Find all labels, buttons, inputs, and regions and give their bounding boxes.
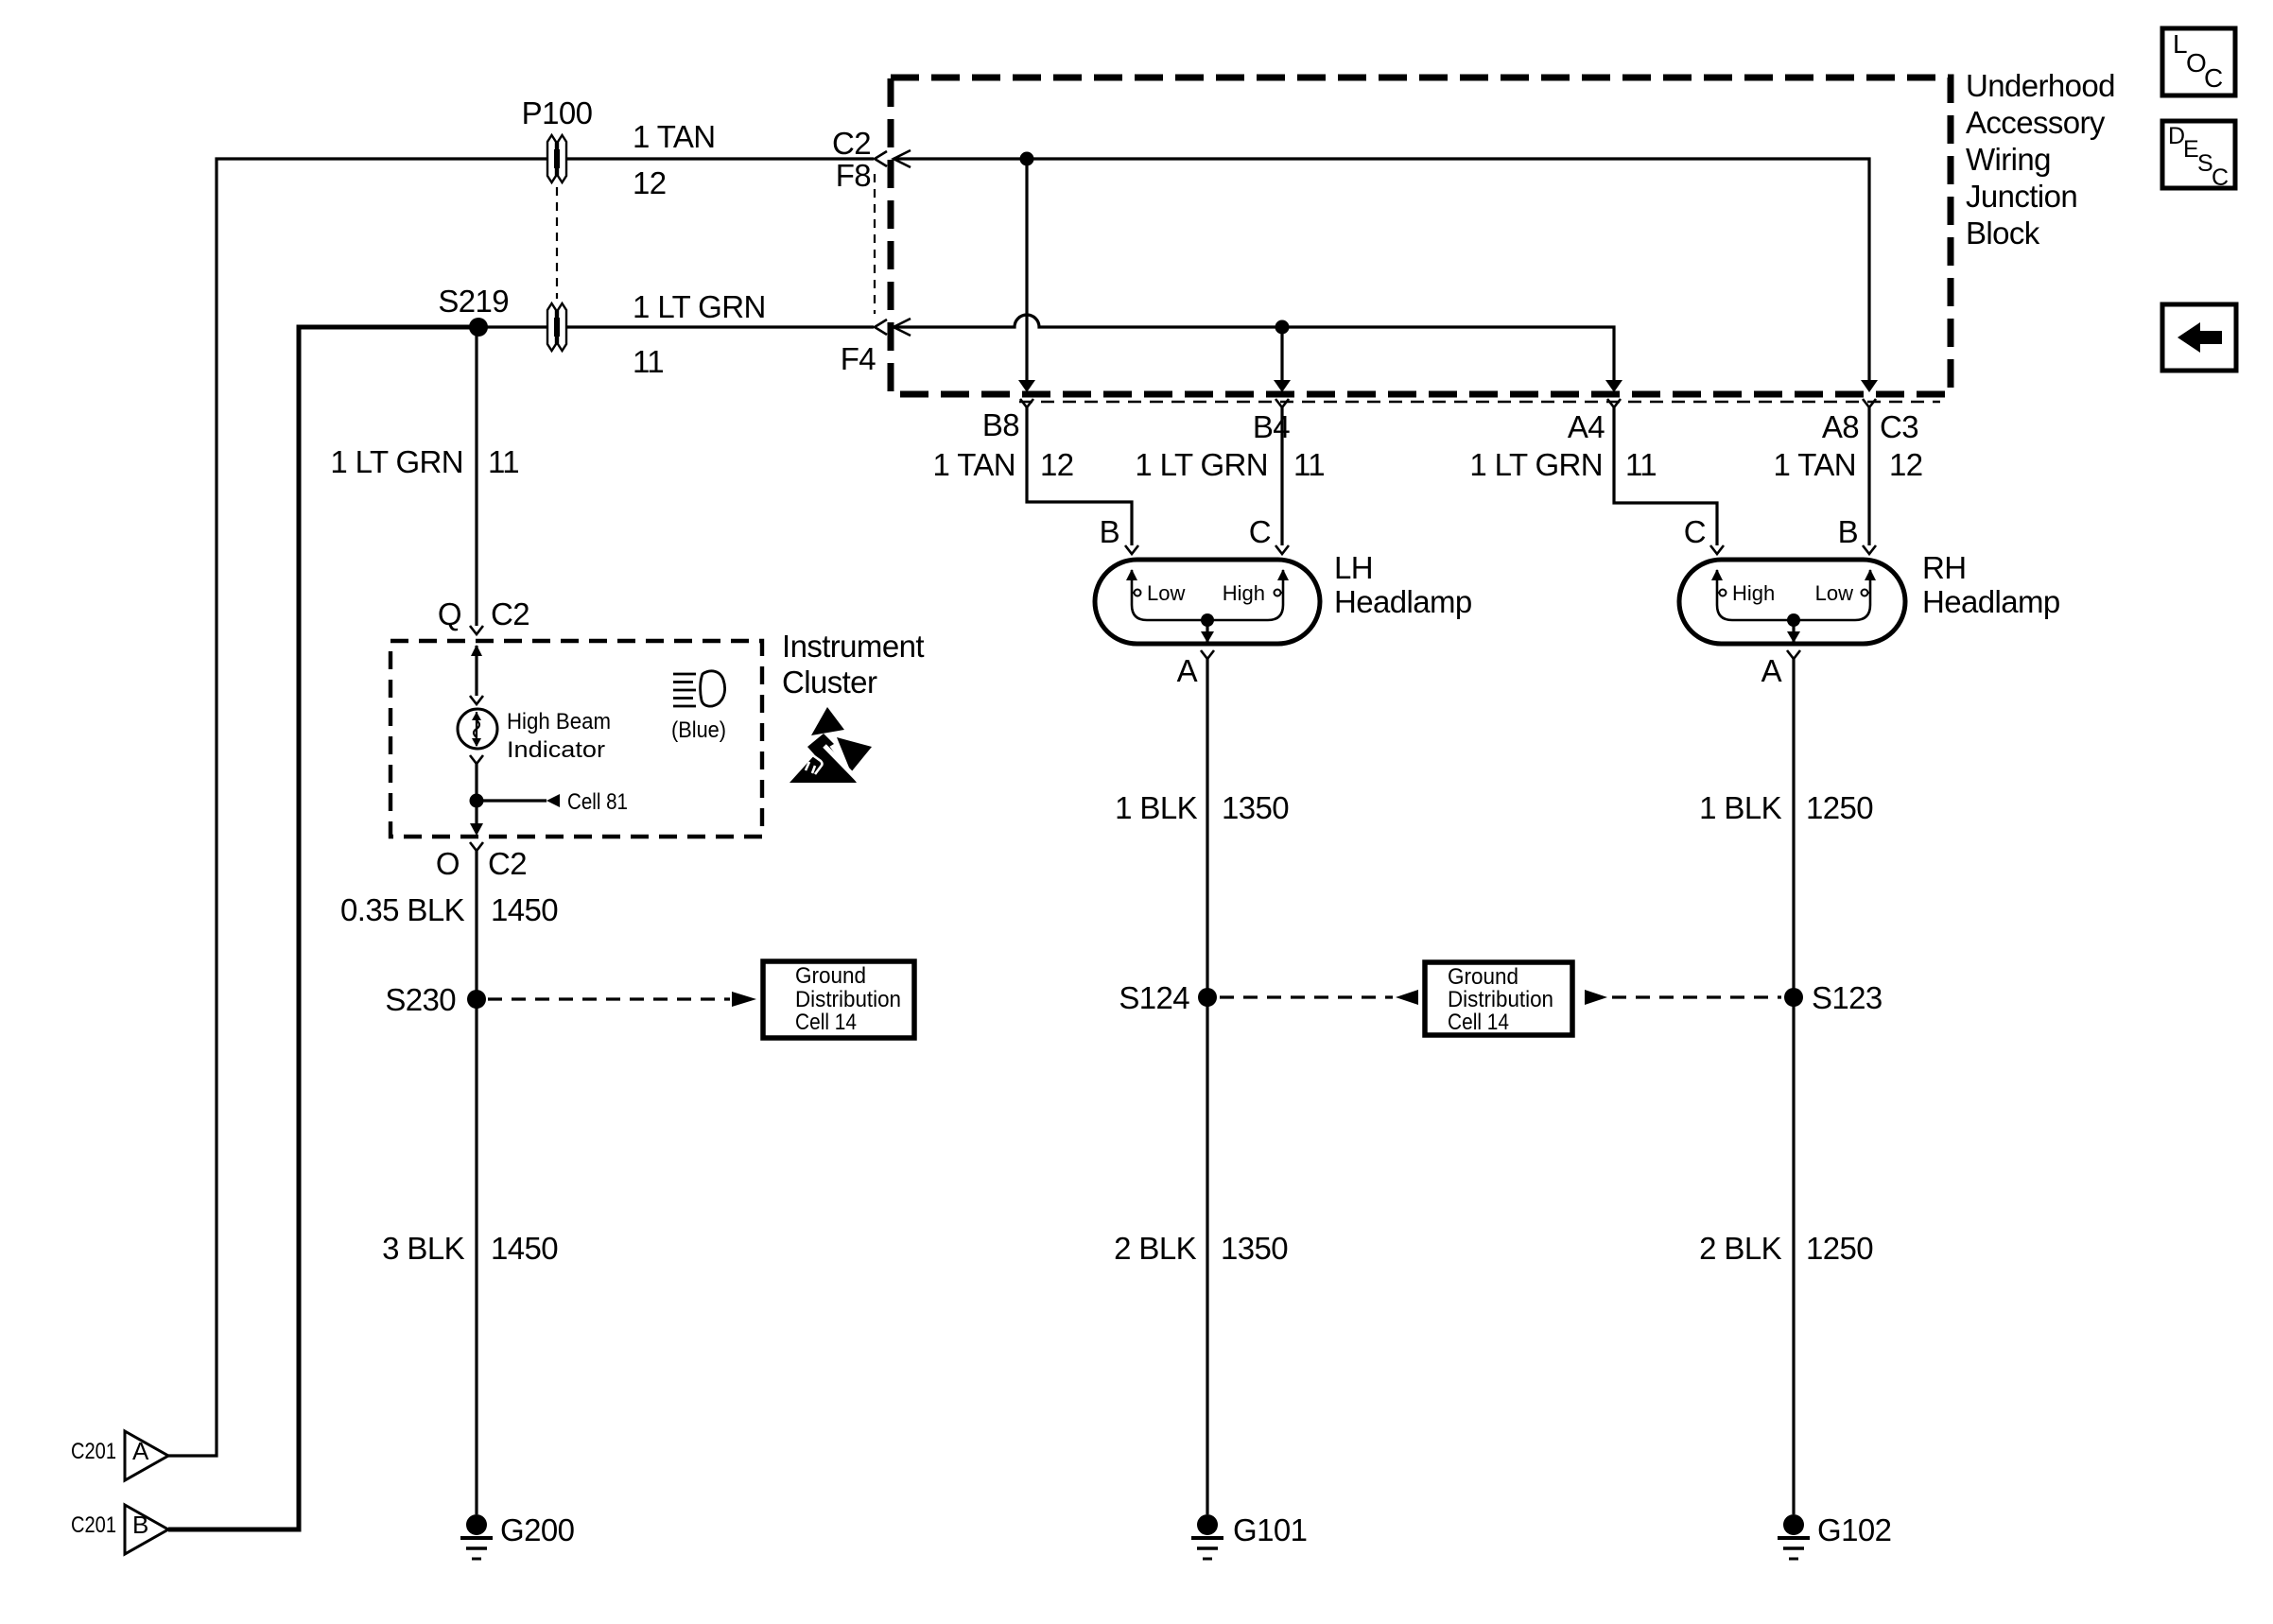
reference arrow (right) at middle ground distribution box: [1585, 990, 1607, 1005]
terminal fork LH pin C: [1275, 545, 1289, 554]
svg-text:Distribution: Distribution: [795, 987, 901, 1012]
svg-text:High: High: [1223, 581, 1265, 605]
svg-text:Q: Q: [438, 596, 461, 631]
svg-text:2 BLK: 2 BLK: [1699, 1231, 1781, 1266]
svg-text:1 TAN: 1 TAN: [633, 119, 715, 154]
svg-text:11: 11: [1625, 447, 1657, 482]
exit arrow B8: [1018, 380, 1035, 392]
svg-text:11: 11: [633, 344, 664, 379]
svg-text:G102: G102: [1817, 1512, 1891, 1547]
svg-text:1 LT GRN: 1 LT GRN: [1135, 447, 1268, 482]
ground distribution dashed reference S124: [1220, 995, 1393, 998]
ground distribution box (left) Cell 14: [763, 961, 914, 1038]
svg-text:1 LT GRN: 1 LT GRN: [633, 289, 766, 324]
DESC legend box: [2162, 121, 2235, 191]
svg-text:G200: G200: [500, 1512, 575, 1547]
svg-text:RH: RH: [1922, 550, 1966, 585]
svg-text:F8: F8: [836, 158, 871, 193]
svg-text:Wiring: Wiring: [1966, 142, 2051, 177]
LH ground stem with arrow: [1201, 620, 1214, 643]
RH common junction dot: [1787, 613, 1800, 627]
svg-text:1250: 1250: [1806, 790, 1873, 825]
LH headlamp internal filament path: [1132, 570, 1283, 620]
svg-text:C201: C201: [71, 1439, 116, 1464]
svg-text:Cluster: Cluster: [782, 665, 877, 700]
terminal fork A8: [1863, 399, 1876, 407]
exit arrow A8: [1861, 380, 1878, 392]
wire S219 to junction block F4: [477, 325, 874, 328]
svg-text:O: O: [436, 846, 460, 881]
svg-text:Block: Block: [1966, 216, 2040, 251]
junction dot on F8 bus at B8 drop: [1020, 152, 1034, 166]
svg-text:LH: LH: [1334, 550, 1373, 585]
terminal fork pin O: [470, 842, 483, 851]
RH ground stem with arrow: [1787, 620, 1800, 643]
RH filament arrow (Low): [1865, 569, 1876, 580]
svg-text:C: C: [2204, 63, 2223, 93]
junction dot on F4 bus at B4 drop: [1275, 320, 1290, 335]
svg-text:3 BLK: 3 BLK: [382, 1231, 464, 1266]
back arrow legend box: [2162, 304, 2236, 371]
svg-text:1 TAN: 1 TAN: [1774, 447, 1856, 482]
svg-text:S230: S230: [385, 982, 456, 1017]
svg-text:A4: A4: [1568, 409, 1605, 444]
svg-text:Cell 14: Cell 14: [1448, 1010, 1509, 1035]
exit arrow A4: [1605, 380, 1622, 392]
wire B8 drop inside block: [1025, 159, 1028, 380]
terminal fork RH pin B: [1863, 545, 1876, 554]
terminal fork pin Q: [470, 626, 483, 634]
connector C201 pin B: [71, 1505, 168, 1554]
wire S219 down to instrument cluster pin Q: [475, 327, 477, 626]
svg-text:11: 11: [488, 444, 519, 479]
ground G200: [460, 1512, 575, 1559]
svg-text:Underhood: Underhood: [1966, 68, 2115, 103]
svg-text:Indicator: Indicator: [507, 737, 605, 763]
LH common junction dot: [1201, 613, 1214, 627]
svg-text:2 BLK: 2 BLK: [1114, 1231, 1196, 1266]
svg-text:High Beam: High Beam: [507, 709, 611, 734]
wire RH headlamp A to G102: [1792, 659, 1795, 1514]
junction dot cell-81 branch: [470, 794, 484, 808]
Underhood Accessory Wiring Junction Block label: [1966, 68, 2115, 251]
svg-text:C: C: [1249, 514, 1271, 549]
svg-text:Distribution: Distribution: [1448, 987, 1553, 1012]
RH filament arrow (High): [1711, 569, 1723, 580]
connector C201 pin A: [71, 1431, 168, 1480]
svg-text:Junction: Junction: [1966, 179, 2077, 214]
terminal fork at F8: [875, 151, 887, 166]
LH filament arrow (Low): [1126, 569, 1137, 580]
cluster exit arrow (down): [470, 823, 483, 836]
terminal fork above indicator lamp: [470, 696, 483, 704]
RH low-beam contact: [1862, 590, 1871, 596]
terminal fork below indicator lamp: [470, 755, 483, 764]
svg-text:1 BLK: 1 BLK: [1699, 790, 1781, 825]
svg-text:G101: G101: [1233, 1512, 1307, 1547]
terminal fork RH pin A: [1787, 650, 1800, 659]
splice S124: [1198, 988, 1217, 1007]
ground distribution dashed reference S230: [488, 997, 730, 1000]
terminal fork at F4: [875, 320, 887, 335]
svg-text:C2: C2: [832, 126, 871, 161]
LH high-beam contact: [1275, 590, 1284, 596]
svg-text:C: C: [1684, 514, 1706, 549]
svg-text:C: C: [2212, 164, 2229, 191]
svg-text:1 BLK: 1 BLK: [1115, 790, 1197, 825]
svg-text:A: A: [1177, 653, 1198, 688]
cluster entry arrow (up): [471, 645, 482, 696]
svg-text:High: High: [1732, 581, 1775, 605]
connector P100 (pass-through, top wire): [522, 95, 593, 182]
svg-text:P100: P100: [522, 95, 593, 130]
arrowhead at F4 (inside block): [894, 319, 911, 336]
svg-text:C3: C3: [1880, 409, 1918, 444]
ground G102: [1778, 1512, 1891, 1559]
svg-text:11: 11: [1293, 447, 1325, 482]
connector C2/C3 thin dashed line below junction block: [1019, 401, 1940, 404]
svg-text:0.35 BLK: 0.35 BLK: [340, 892, 465, 927]
arrowhead at F8 (inside block): [894, 150, 911, 167]
exit arrow B4: [1274, 380, 1291, 392]
terminal fork RH pin C: [1710, 545, 1724, 554]
terminal fork A4: [1607, 399, 1621, 407]
svg-text:A: A: [1761, 653, 1782, 688]
RH Headlamp body: [1679, 550, 2060, 644]
wire A8 to RH headlamp pin B: [1867, 407, 1870, 545]
RH high-beam contact: [1717, 590, 1726, 596]
connector P100 (pass-through, lower wire): [547, 303, 566, 351]
svg-text:Cell 81: Cell 81: [567, 789, 628, 815]
headlamp beam icon (blue indicator): [671, 671, 726, 743]
svg-text:Low: Low: [1147, 581, 1185, 605]
svg-text:B: B: [1838, 514, 1858, 549]
svg-text:F4: F4: [841, 341, 876, 376]
svg-text:1350: 1350: [1222, 790, 1289, 825]
svg-text:1 LT GRN: 1 LT GRN: [1469, 447, 1603, 482]
svg-text:1350: 1350: [1221, 1231, 1288, 1266]
LH low-beam contact: [1132, 590, 1141, 596]
svg-text:Cell 14: Cell 14: [795, 1010, 857, 1035]
wire B4 to LH headlamp pin C: [1280, 407, 1283, 545]
RH headlamp internal filament path: [1717, 570, 1870, 620]
svg-text:S123: S123: [1812, 980, 1883, 1015]
svg-text:Ground: Ground: [795, 963, 866, 989]
wire below lamp to cell-81 branch: [475, 764, 477, 823]
svg-text:B4: B4: [1253, 409, 1290, 444]
svg-text:B: B: [1100, 514, 1119, 549]
svg-text:B8: B8: [982, 407, 1019, 442]
svg-text:Headlamp: Headlamp: [1334, 584, 1472, 619]
ground distribution dashed reference S123: [1612, 995, 1781, 998]
connector C2 dashed line (between F8 and F4 pins): [874, 174, 876, 314]
P100 dashed link line: [556, 187, 558, 299]
svg-text:12: 12: [633, 165, 667, 200]
wire A4 to RH headlamp pin C: [1614, 407, 1717, 545]
svg-text:A: A: [132, 1437, 149, 1465]
wire pin O down to G200: [475, 851, 477, 1514]
svg-text:Headlamp: Headlamp: [1922, 584, 2060, 619]
svg-text:C2: C2: [488, 846, 527, 881]
svg-text:Ground: Ground: [1448, 964, 1518, 990]
svg-text:B: B: [132, 1511, 148, 1539]
wire B8 to LH headlamp pin B: [1027, 407, 1132, 545]
terminal fork B8: [1020, 399, 1033, 407]
svg-text:12: 12: [1040, 447, 1074, 482]
svg-text:12: 12: [1889, 447, 1923, 482]
svg-text:S219: S219: [438, 284, 509, 319]
reference arrow into left ground distribution box: [732, 992, 756, 1007]
reference arrow (left) at middle ground distribution box: [1396, 990, 1418, 1005]
svg-text:Instrument: Instrument: [782, 629, 924, 664]
wire inside block: F4 bus to A4 drop (hop over B8 drop): [894, 315, 1614, 380]
svg-text:S124: S124: [1119, 980, 1189, 1015]
svg-text:Accessory: Accessory: [1966, 105, 2106, 140]
svg-text:1 LT GRN: 1 LT GRN: [330, 444, 463, 479]
svg-text:1 TAN: 1 TAN: [933, 447, 1015, 482]
ESD sensitive device symbol: [789, 707, 872, 785]
svg-text:1450: 1450: [491, 1231, 558, 1266]
instrument cluster dashed box: [390, 641, 762, 837]
wire 1 LT GRN from C201-B up to S219 (heavy): [168, 327, 477, 1529]
splice S230: [467, 990, 486, 1009]
svg-text:C201: C201: [71, 1512, 116, 1538]
svg-text:1250: 1250: [1806, 1231, 1873, 1266]
junction block Underhood Accessory Wiring Junction Block (dashed box): [891, 78, 1951, 394]
terminal fork LH pin A: [1201, 650, 1214, 659]
svg-text:1450: 1450: [491, 892, 558, 927]
LH Headlamp body: [1095, 550, 1472, 644]
svg-text:(Blue): (Blue): [671, 717, 726, 743]
wire inside block: F8 bus to A8 drop: [894, 159, 1869, 380]
splice S219: [469, 318, 488, 337]
splice S123: [1784, 988, 1803, 1007]
wire 1 TAN from C201-A up and right to junction block F8: [168, 159, 874, 1456]
svg-text:C2: C2: [491, 596, 529, 631]
branch wire to Cell 81 reference: [477, 789, 628, 815]
high beam indicator lamp: [458, 709, 611, 763]
ground distribution box (middle) Cell 14: [1425, 962, 1572, 1035]
LH filament arrow (High): [1277, 569, 1289, 580]
ground G101: [1191, 1512, 1307, 1559]
svg-text:A8: A8: [1822, 409, 1859, 444]
wire B4 drop inside block: [1280, 327, 1283, 380]
terminal fork B4: [1275, 399, 1289, 407]
svg-text:Low: Low: [1815, 581, 1853, 605]
terminal fork LH pin B: [1125, 545, 1138, 554]
wire LH headlamp A to G101: [1206, 659, 1208, 1514]
LOC legend box: [2162, 28, 2235, 95]
